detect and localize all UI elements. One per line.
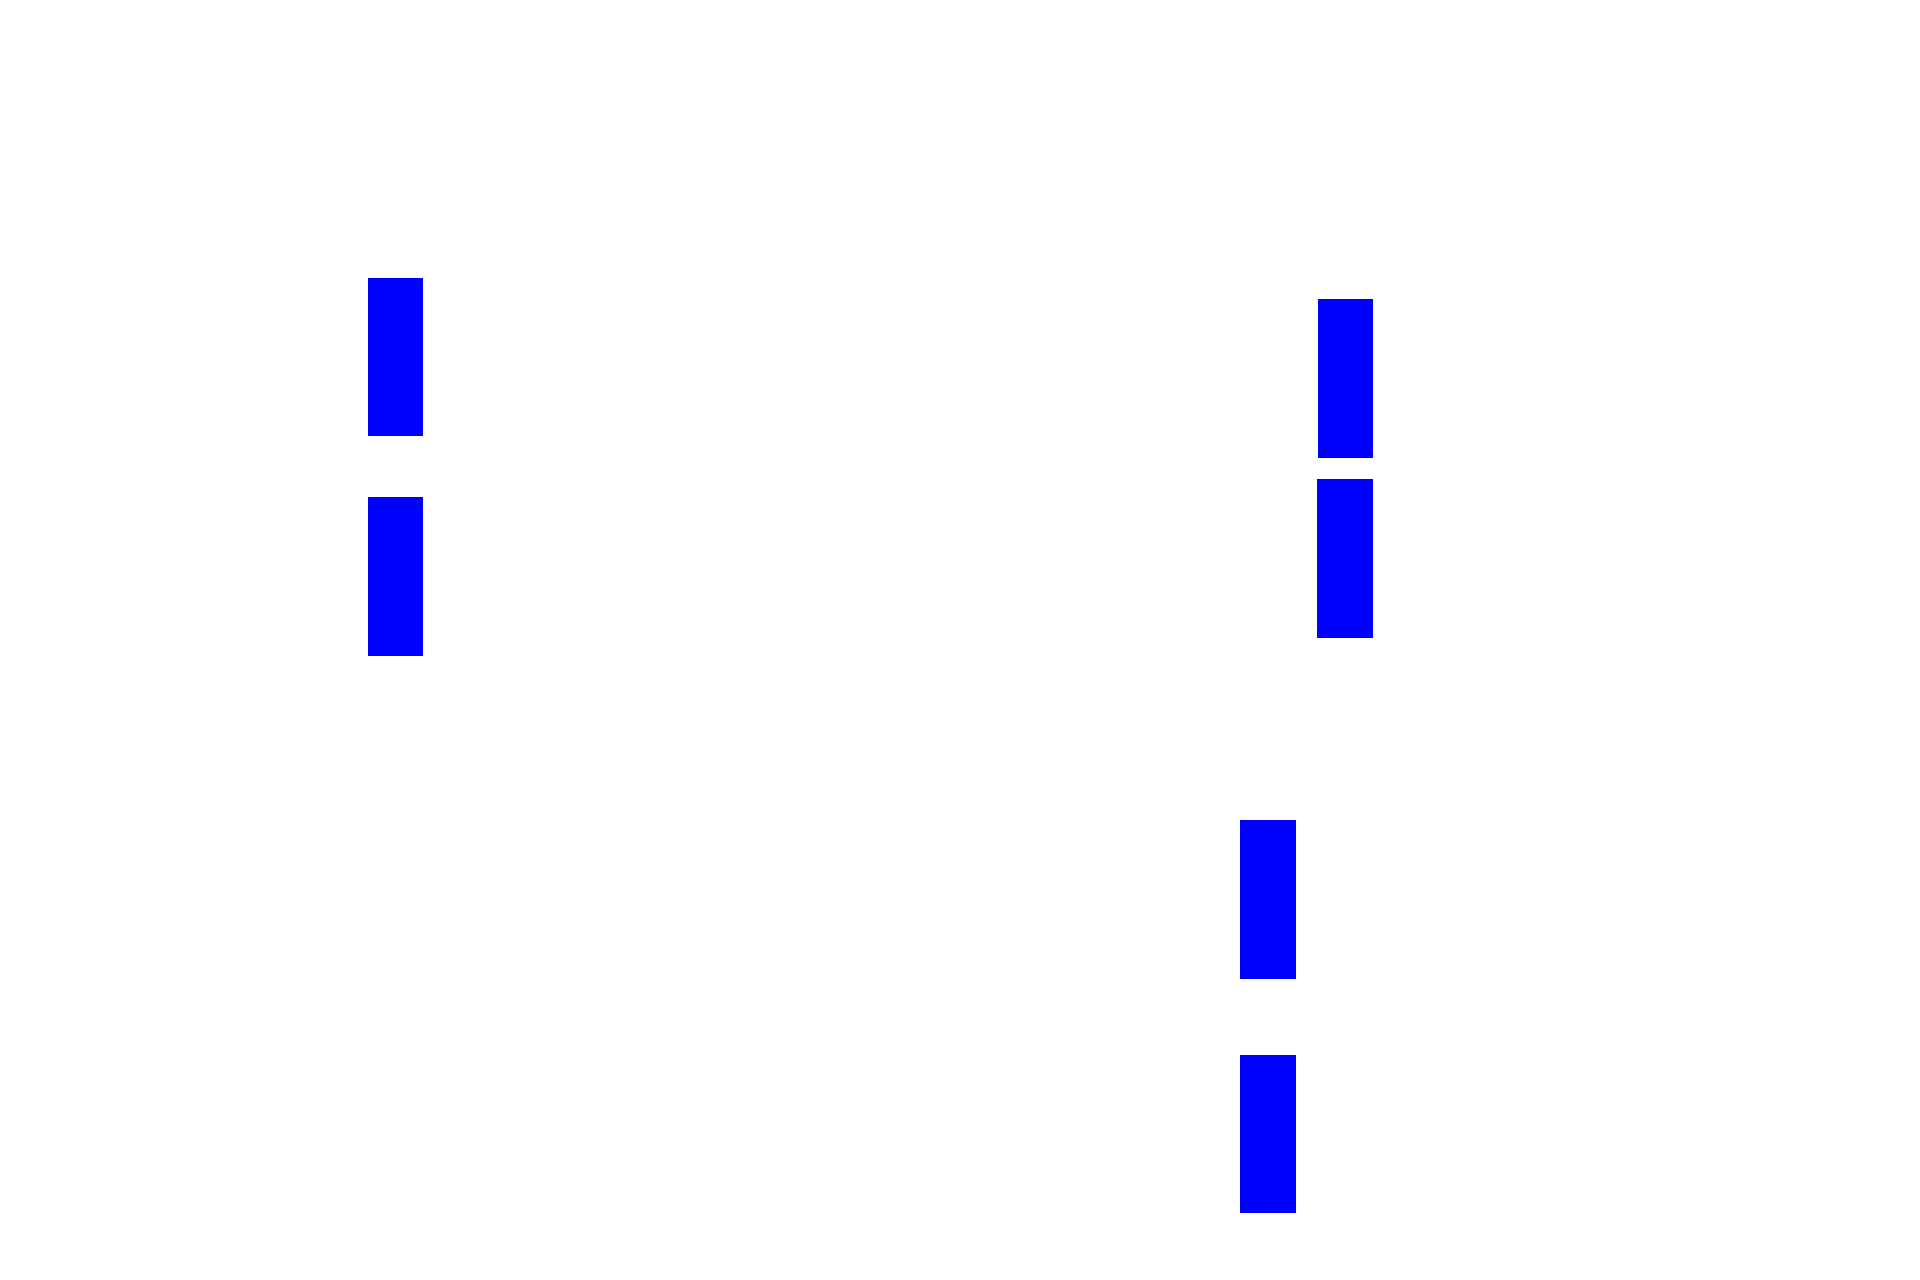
bar 6 (lower-right column, bottom rectangle)	[1240, 1055, 1296, 1213]
bar 5 (lower-right column, top rectangle)	[1240, 820, 1296, 979]
bar 4 (upper-right column, bottom rectangle)	[1317, 479, 1373, 638]
bar 3 (upper-right column, top rectangle)	[1318, 299, 1373, 458]
bar 1 (left column, upper rectangle)	[368, 278, 423, 436]
bar 2 (left column, lower rectangle)	[368, 497, 423, 656]
